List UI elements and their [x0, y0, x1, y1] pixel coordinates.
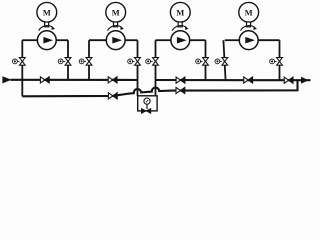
control valve under box (filled): [141, 109, 150, 114]
gate valve P2 discharge on vertical pipe: [135, 58, 141, 66]
stop valve B on header (left half hollow, right half filled): [108, 77, 117, 83]
vertical pipe P1 suction: [21, 40, 23, 96]
svg-text:M: M: [245, 9, 253, 18]
svg-text:M: M: [112, 9, 120, 18]
stop valve C on header (left half hollow, right half filled): [176, 77, 185, 83]
motor M1 circle: [37, 2, 57, 22]
svg-text:M: M: [176, 9, 184, 18]
discharge pipe of pump P3: [190, 39, 206, 41]
instrument bubble for valve P3 suction: [146, 59, 153, 64]
pressure gauge in box: [144, 98, 150, 104]
vertical pipe P4 suction: [223, 40, 225, 80]
pump P4 circle: [239, 31, 258, 50]
vertical pipe P2 discharge: [137, 40, 139, 96]
stem from gauge to control valve: [146, 104, 148, 109]
stop valve G on header (left half hollow, right half filled): [176, 87, 185, 93]
vertical pipe P2 suction: [88, 40, 90, 80]
instrument bubble for valve P4 suction: [215, 59, 222, 64]
instrument bubble for valve P2 suction: [79, 59, 86, 64]
pump P3 rotation arrow: [172, 26, 189, 31]
vertical pipe P4 discharge: [279, 40, 281, 80]
meter box outline: [138, 96, 157, 111]
gate valve P1 discharge on vertical pipe: [65, 58, 71, 66]
pump P1 rotation arrow: [39, 26, 56, 31]
svg-text:M: M: [43, 9, 51, 18]
stop valve D on header (left half hollow, right half filled): [244, 77, 253, 83]
pump P2 impeller triangle: [112, 37, 122, 44]
motor M3 circle: [170, 2, 190, 22]
coupling between motor M4 and pump P4: [247, 22, 251, 27]
instrument bubble for valve P2 discharge: [128, 59, 135, 64]
pump P4 impeller triangle: [245, 37, 255, 44]
coupling between motor M1 and pump P1: [45, 22, 49, 27]
gate valve P2 suction on vertical pipe: [86, 58, 92, 66]
lower header pipe with jump-overs: [22, 80, 297, 96]
stop valve F on header (left half hollow, right half filled): [108, 93, 117, 99]
upper header pipe, left section: [11, 79, 138, 81]
pump P3 impeller triangle: [177, 37, 187, 44]
discharge pipe of pump P2: [125, 39, 137, 41]
gate valve P3 suction on vertical pipe: [153, 58, 159, 66]
suction pipe of pump P2: [89, 39, 106, 41]
suction pipe of pump P4: [225, 39, 240, 41]
pump P2 rotation arrow: [108, 26, 125, 31]
coupling between motor M3 and pump P3: [178, 22, 182, 27]
gate valve P4 suction on vertical pipe: [222, 58, 228, 66]
motor M4 circle: [239, 2, 259, 22]
discharge pipe of pump P4: [258, 39, 279, 41]
suction pipe of pump P3: [156, 39, 171, 41]
gate valve P4 discharge on vertical pipe: [277, 58, 283, 66]
vertical pipe P1 discharge: [67, 40, 69, 80]
pump P1 circle: [37, 31, 56, 50]
stop valve A on header (left half hollow, right half filled): [40, 77, 49, 83]
discharge pipe of pump P1: [56, 39, 68, 41]
pump P1 impeller triangle: [43, 37, 53, 44]
coupling between motor M2 and pump P2: [114, 22, 118, 27]
vertical pipe P3 suction: [155, 40, 157, 96]
upper header pipe, right section: [156, 79, 311, 81]
instrument bubble for valve P1 discharge: [58, 59, 65, 64]
inlet flow arrow (left end of upper header): [2, 76, 11, 83]
pump P2 circle: [106, 31, 125, 50]
vertical pipe P3 discharge: [205, 40, 207, 80]
gate valve P1 suction on vertical pipe: [19, 58, 25, 66]
pump P3 circle: [171, 31, 190, 50]
instrument bubble for valve P3 discharge: [196, 59, 203, 64]
motor M2 circle: [106, 2, 126, 22]
stop valve E on header (left half hollow, right half filled): [284, 77, 293, 83]
suction pipe of pump P1: [22, 39, 37, 41]
instrument bubble for valve P4 discharge: [270, 59, 277, 64]
instrument bubble for valve P1 suction: [13, 59, 20, 64]
gate valve P3 discharge on vertical pipe: [203, 58, 209, 66]
pump P4 rotation arrow: [241, 26, 258, 31]
outlet flow arrow (right end of upper header): [301, 77, 309, 84]
